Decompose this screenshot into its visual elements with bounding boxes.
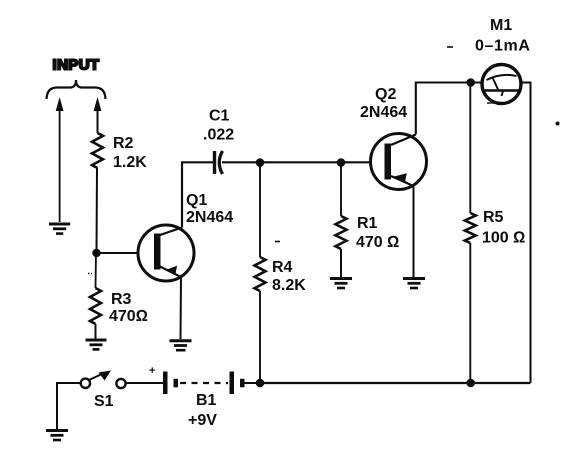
wire: R4 to bottom rail: [259, 291, 261, 383]
ground (bottom-left): [46, 429, 68, 432]
transistor Q2: [371, 134, 427, 190]
meter M1: [482, 65, 521, 104]
ground (under Q2 emitter): [403, 277, 425, 280]
svg-text:Q1: Q1: [186, 192, 207, 209]
stray mark (dash left of 0-1mA): [447, 46, 453, 48]
resistor R2: [92, 133, 103, 168]
wire: Q1 emitter to ground: [180, 276, 183, 339]
wire: R3 to ground: [95, 324, 97, 339]
wire: junction down to R3: [95, 253, 98, 288]
wire: switch to bottom-left ground: [57, 383, 81, 429]
svg-text:S1: S1: [94, 393, 114, 410]
svg-text:C1: C1: [209, 108, 230, 125]
switch S1: [81, 379, 90, 388]
wire: Q2 emitter to ground: [413, 185, 415, 277]
node: R5 bottom junction: [466, 379, 475, 388]
node: R5 top junction: [466, 78, 475, 87]
wire: junction down to R5: [469, 83, 471, 214]
stray mark (dot at right edge): [556, 122, 560, 126]
stray mark (dash above R4 label): [275, 241, 280, 243]
svg-text:+9V: +9V: [188, 412, 217, 429]
ground (under R1): [330, 277, 352, 280]
brace under INPUT: [47, 80, 106, 99]
svg-text:Q2: Q2: [375, 86, 396, 103]
wire: Q1 collector up to C1 level: [182, 162, 214, 227]
svg-text:B1: B1: [196, 392, 217, 409]
svg-text:R3: R3: [111, 291, 132, 308]
wire: R1 to ground: [340, 249, 342, 277]
svg-text:INPUT: INPUT: [53, 57, 100, 74]
wire: right input line with up arrow: [97, 106, 99, 133]
wire: C1 to Q2 base: [222, 161, 371, 163]
node: C1 / R4 junction: [256, 158, 265, 167]
transistor Q1: [138, 225, 194, 281]
wire: junction down to R1: [340, 163, 342, 217]
svg-text:2N464: 2N464: [360, 104, 407, 121]
node: R4 / battery junction: [256, 379, 265, 388]
svg-text:8.2K: 8.2K: [272, 277, 306, 294]
svg-text:+: +: [149, 365, 155, 377]
resistor R4: [255, 257, 266, 291]
battery B1: [163, 372, 168, 395]
svg-text:100 Ω: 100 Ω: [482, 230, 525, 247]
ground (under R3): [86, 339, 107, 342]
wire: switch to battery: [126, 382, 163, 384]
ground (under Q1 emitter): [170, 339, 192, 342]
wire: Q2 collector up and right to meter: [416, 83, 483, 135]
svg-text:R1: R1: [357, 215, 378, 232]
wire: junction down to R4: [259, 163, 261, 258]
ground (top-left, under input line): [49, 223, 70, 226]
capacitor C1: [213, 151, 216, 174]
wire: R2 bottom to junction: [96, 168, 99, 253]
resistor R5: [465, 213, 476, 243]
wire: battery to rail node: [245, 382, 261, 384]
wire: meter right lead and right vertical down: [521, 83, 531, 384]
wire: bottom rail: [260, 382, 531, 384]
node: R2/R3/Q1 base junction: [92, 249, 100, 257]
svg-text:1.2K: 1.2K: [113, 154, 147, 171]
svg-text:M1: M1: [490, 17, 512, 34]
wire: left input line with up arrow: [59, 106, 61, 222]
svg-text:R4: R4: [272, 259, 293, 276]
wire: Q1 base: [97, 252, 140, 254]
resistor R1: [336, 216, 347, 249]
svg-text:2N464: 2N464: [186, 209, 233, 226]
svg-text:R5: R5: [483, 209, 504, 226]
svg-text:.022: .022: [203, 127, 234, 144]
resistor R3: [90, 288, 101, 324]
stray mark (dots left of R3 wire): [88, 273, 92, 275]
svg-text:R2: R2: [113, 135, 134, 152]
svg-text:0–1mA: 0–1mA: [475, 38, 530, 55]
svg-text:470 Ω: 470 Ω: [356, 234, 399, 251]
svg-text:470Ω: 470Ω: [109, 308, 148, 325]
wire: R5 to bottom rail: [469, 243, 471, 383]
node: R1 junction on base wire: [337, 158, 346, 167]
